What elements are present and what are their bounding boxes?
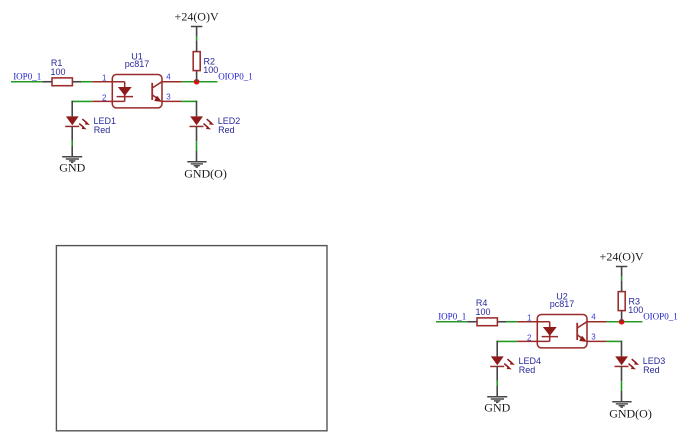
power +24(O)V — [600, 250, 644, 277]
pin 1 — [92, 74, 124, 83]
wire R1 to pin 1 — [81, 81, 92, 83]
LED LED3 — [615, 356, 666, 375]
LED LED1 — [65, 116, 116, 135]
svg-text:2: 2 — [102, 93, 107, 102]
svg-text:4: 4 — [591, 313, 596, 322]
svg-text:4: 4 — [166, 73, 171, 82]
svg-text:3: 3 — [591, 333, 596, 342]
svg-text:Red: Red — [218, 125, 235, 135]
svg-text:100: 100 — [203, 65, 218, 75]
ground GND(O) — [184, 162, 227, 181]
wire R3 to power — [621, 277, 623, 281]
wire pin 2 to LED4 — [497, 341, 517, 357]
internal phototransistor of U1 — [152, 82, 162, 102]
svg-text:pc817: pc817 — [125, 59, 150, 69]
svg-text:3: 3 — [166, 93, 171, 102]
svg-text:1: 1 — [102, 74, 107, 83]
net label IOP0_1 — [438, 311, 466, 321]
wire IOP0_1 to R1 — [11, 81, 42, 83]
net label IOP0_1 — [13, 71, 41, 81]
svg-text:100: 100 — [476, 307, 491, 317]
svg-text:100: 100 — [51, 67, 66, 77]
svg-text:Red: Red — [643, 365, 660, 375]
internal LED of U2 — [542, 322, 558, 342]
pin 4 — [587, 313, 607, 322]
svg-text:GND(O): GND(O) — [609, 407, 652, 421]
wire R4 to pin 1 — [506, 321, 517, 323]
svg-text:OIOP0_1: OIOP0_1 — [218, 71, 253, 81]
svg-text:1: 1 — [527, 314, 532, 323]
internal LED of U1 — [117, 82, 133, 102]
junction node — [194, 79, 200, 85]
wire IOP0_1 to R4 — [436, 321, 467, 323]
wire LED4 to ground — [496, 366, 498, 396]
resistor R4 — [467, 298, 506, 326]
wire pin 3 to LED3 — [607, 341, 622, 357]
pin 2 — [92, 93, 125, 102]
wire pin 4 to node — [182, 81, 218, 83]
wire LED3 to ground — [621, 366, 623, 401]
pin 1 — [517, 314, 549, 323]
svg-text:+24(O)V: +24(O)V — [600, 250, 644, 264]
svg-text:IOP0_1: IOP0_1 — [13, 71, 41, 81]
svg-text:GND: GND — [484, 401, 510, 415]
svg-text:Red: Red — [519, 365, 536, 375]
wire pin 4 to node — [607, 321, 643, 323]
wire R2 to power — [196, 37, 198, 41]
pin 4 — [162, 73, 182, 82]
net label OIOP0_1 — [218, 71, 253, 81]
svg-text:100: 100 — [628, 305, 643, 315]
ground GND(O) — [609, 402, 652, 421]
wire LED1 to ground — [71, 126, 73, 156]
svg-text:2: 2 — [527, 333, 532, 342]
resistor R2 — [193, 40, 218, 81]
svg-text:pc817: pc817 — [550, 299, 575, 309]
empty frame rectangle — [56, 246, 327, 431]
svg-text:OIOP0_1: OIOP0_1 — [643, 311, 678, 321]
wire LED2 to ground — [196, 126, 198, 161]
resistor R3 — [618, 280, 643, 321]
ground GND — [484, 397, 510, 415]
opto-coupler U1 — [112, 51, 162, 108]
power +24(O)V — [175, 10, 219, 37]
svg-text:GND(O): GND(O) — [184, 167, 227, 181]
LED LED2 — [190, 116, 241, 135]
svg-text:IOP0_1: IOP0_1 — [438, 311, 466, 321]
wire pin 2 to LED1 — [72, 101, 92, 117]
svg-text:GND: GND — [59, 161, 85, 175]
junction node — [619, 319, 625, 325]
LED LED4 — [490, 356, 541, 375]
svg-text:Red: Red — [94, 125, 111, 135]
pin 3 — [162, 93, 182, 102]
wire pin 3 to LED2 — [182, 101, 197, 117]
internal phototransistor of U2 — [577, 322, 587, 342]
pin 3 — [587, 333, 607, 342]
pin 2 — [517, 333, 550, 342]
resistor R1 — [42, 58, 81, 86]
svg-text:+24(O)V: +24(O)V — [175, 10, 219, 24]
net label OIOP0_1 — [643, 311, 678, 321]
opto-coupler U2 — [537, 291, 587, 348]
ground GND — [59, 157, 85, 175]
